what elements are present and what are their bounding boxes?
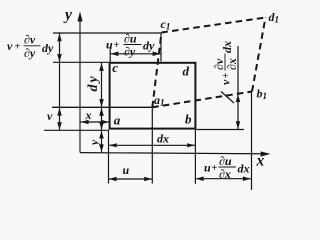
deformed element edge b1-d1 (dashed) — [252, 18, 266, 92]
y-axis — [77, 12, 82, 153]
deformed element edge a1-c1 (dashed) — [152, 33, 161, 108]
svg-text:v: v — [47, 109, 53, 123]
svg-text:v: v — [7, 39, 13, 53]
deformed element edge c1-d1 (dashed) — [162, 18, 266, 33]
svg-text:c1: c1 — [161, 17, 171, 32]
drop line below b1 — [251, 93, 253, 191]
svg-text:dy: dy — [42, 41, 54, 55]
svg-text:+: + — [212, 163, 218, 174]
dy / y dimension chain column — [99, 63, 104, 152]
svg-text:dx: dx — [220, 41, 234, 53]
u+du/dx dx dimension line (bottom right) — [195, 176, 251, 181]
reference line at a level (left extension of rectangle bottom) — [44, 129, 109, 131]
svg-text:+: + — [114, 40, 120, 51]
svg-text:x: x — [256, 153, 265, 170]
dimension label v+dv/dy dy (top left) — [7, 33, 54, 61]
drop line below a1 — [151, 108, 153, 184]
svg-text:b1: b1 — [257, 87, 268, 102]
svg-text:y: y — [89, 139, 101, 147]
svg-text:u: u — [204, 161, 211, 175]
svg-text:∂v: ∂v — [24, 33, 36, 47]
svg-text:∂u: ∂u — [219, 154, 232, 168]
svg-text:b: b — [185, 112, 192, 127]
svg-text:dy: dy — [86, 74, 101, 91]
svg-text:u: u — [106, 38, 113, 52]
u dimension line — [109, 177, 153, 182]
left dimension column — [57, 33, 62, 130]
svg-text:dx: dx — [238, 162, 250, 176]
rectangle element abdc — [110, 63, 196, 129]
reference line at c level (left extension of rectangle top) — [53, 61, 109, 63]
svg-text:dx: dx — [157, 132, 169, 146]
drop line below b — [194, 130, 196, 184]
svg-text:v: v — [219, 79, 233, 85]
top dimension line u+du/dy dy — [110, 33, 161, 62]
svg-text:c: c — [112, 60, 118, 75]
svg-text:d: d — [183, 64, 190, 79]
reference line at b level (right extension of rectangle bottom) — [197, 129, 245, 131]
x dimension line — [81, 120, 110, 125]
svg-text:∂y: ∂y — [124, 45, 136, 59]
dimension label u+du/dx dx (bottom right) — [204, 154, 250, 181]
svg-text:+: + — [221, 73, 232, 79]
reference line at c1 level — [53, 32, 162, 34]
svg-text:u: u — [123, 163, 130, 177]
svg-text:a: a — [114, 113, 121, 128]
svg-text:y: y — [63, 7, 72, 24]
svg-text:∂x: ∂x — [219, 167, 231, 181]
svg-text:∂u: ∂u — [124, 32, 137, 46]
svg-text:d1: d1 — [269, 10, 280, 25]
svg-text:a1: a1 — [154, 93, 165, 108]
svg-text:dy: dy — [143, 39, 155, 53]
dimension label u+du/dy dy (top) — [106, 32, 155, 59]
v+dv/dx dx dimension column (right, at b1) — [221, 46, 240, 129]
svg-text:+: + — [15, 42, 21, 53]
deformed element edge a1-b1 (dashed) — [152, 92, 252, 108]
drop line below a — [108, 130, 110, 184]
dimension label v+dv/dx dx (rotated) — [212, 41, 239, 85]
svg-text:∂v: ∂v — [212, 58, 226, 70]
dx dimension line (inside, below rectangle bottom level) — [109, 143, 196, 147]
reference line at a1 level — [52, 106, 152, 108]
x-axis — [80, 151, 271, 156]
svg-text:∂y: ∂y — [24, 46, 36, 60]
svg-text:∂x: ∂x — [225, 58, 239, 70]
